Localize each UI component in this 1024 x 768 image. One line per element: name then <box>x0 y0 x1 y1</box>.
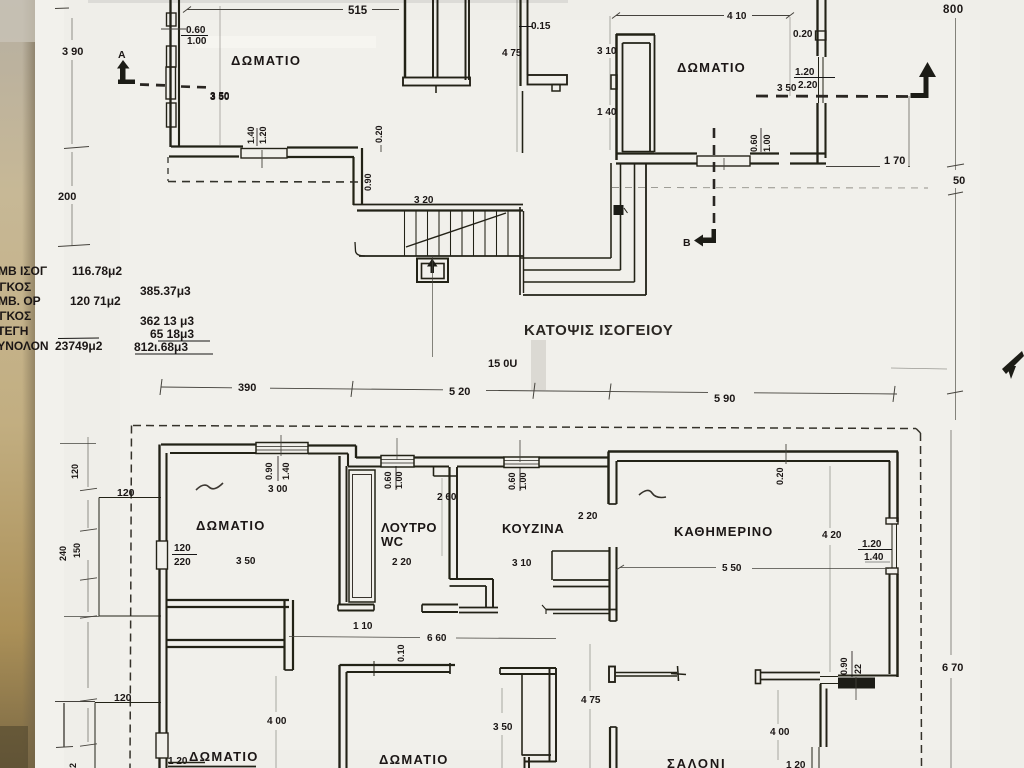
north wall between windows <box>414 456 504 458</box>
bottom edge wall lines lower-left room <box>168 762 205 764</box>
half wall with end cap <box>760 672 820 674</box>
cross mark end of half wall <box>678 666 679 681</box>
svg-text:1 20: 1 20 <box>168 756 188 767</box>
svg-text:200: 200 <box>58 191 76 203</box>
dashed boundary corner <box>916 429 921 434</box>
closet left line <box>521 675 523 756</box>
lower plan north wall left part <box>161 443 256 445</box>
short thick dim segment <box>63 703 65 747</box>
svg-text:120: 120 <box>117 487 135 499</box>
pencil squiggle in room <box>196 483 223 490</box>
svg-text:0.60: 0.60 <box>383 471 393 489</box>
window boxes in left wall <box>167 13 177 26</box>
middle wall bottom rooms <box>338 665 340 768</box>
scan smudge near 15.00 label <box>531 340 546 390</box>
kathimerino north wall <box>608 450 898 452</box>
dashed boundary left <box>130 426 132 768</box>
svg-text:6 70: 6 70 <box>942 662 963 674</box>
saloni east wall <box>819 684 821 747</box>
svg-text:1.00: 1.00 <box>394 471 404 489</box>
svg-text:220: 220 <box>174 557 191 568</box>
svg-text:22: 22 <box>853 664 863 674</box>
lower west wall bottom <box>158 758 160 768</box>
svg-text:ΕΜΒ ΙΣΟΓ: ΕΜΒ ΙΣΟΓ <box>0 264 48 278</box>
svg-text:4 10: 4 10 <box>727 11 747 22</box>
dim extension 4.75 <box>589 644 591 691</box>
svg-text:ΔΩΜΑΤΙΟ: ΔΩΜΑΤΙΟ <box>196 518 266 533</box>
middle wall arm right <box>528 75 568 85</box>
pencil squiggle kathimerino <box>639 490 666 497</box>
svg-text:3 10: 3 10 <box>512 558 532 569</box>
stair top wall <box>353 204 523 206</box>
interior wall vertical B double <box>432 0 434 78</box>
north wall right of kitchen window <box>539 456 608 458</box>
west wall window low <box>156 733 168 758</box>
window north wall <box>256 443 308 454</box>
svg-text:0.10: 0.10 <box>396 644 406 662</box>
svg-text:120 71μ2: 120 71μ2 <box>70 294 121 308</box>
svg-text:ΣΤΕΓΗ: ΣΤΕΓΗ <box>0 324 28 338</box>
svg-text:1 40: 1 40 <box>597 107 617 118</box>
left dim ticks <box>64 147 89 149</box>
svg-text:ΟΓΚΟΣ: ΟΓΚΟΣ <box>0 309 31 323</box>
closet T vertical <box>283 600 285 670</box>
svg-text:ΣΥΝΟΛΟΝ: ΣΥΝΟΛΟΝ <box>0 339 49 353</box>
svg-text:ΚΑΤΟΨΙΣ ΙΣΟΓΕΙΟΥ: ΚΑΤΟΨΙΣ ΙΣΟΓΕΙΟΥ <box>524 322 673 339</box>
svg-text:4 75: 4 75 <box>581 695 601 706</box>
bath south wall segment <box>422 604 458 606</box>
kitchen west wall <box>608 547 610 621</box>
east window sill jogs <box>886 518 898 524</box>
closet wall left vertical double <box>615 34 617 160</box>
strip top light corner <box>0 0 35 42</box>
kathimerino west jamb <box>607 452 609 505</box>
svg-text:WC: WC <box>381 534 404 549</box>
wall top-left exterior vertical <box>169 0 171 147</box>
east window thin lines <box>891 524 893 568</box>
svg-text:3 10: 3 10 <box>597 46 617 57</box>
small tick below bar <box>435 86 437 94</box>
dashed boundary right <box>921 433 922 768</box>
landing arrow up <box>431 266 435 274</box>
east wall lower <box>816 103 818 164</box>
section line A dashes right of wall <box>181 87 210 88</box>
balcony box lower <box>94 703 96 768</box>
svg-text:812ι.68μ3: 812ι.68μ3 <box>134 340 188 354</box>
svg-text:0.60: 0.60 <box>749 134 759 152</box>
dim 1.70 vertical tie <box>908 96 910 167</box>
closet bottom <box>522 754 551 756</box>
interior wall vertical C double <box>465 0 467 80</box>
svg-text:6 60: 6 60 <box>427 633 447 644</box>
left dim ticks lower <box>80 488 97 490</box>
svg-text:1 70: 1 70 <box>884 155 905 167</box>
bathtub <box>349 470 375 602</box>
bath L wall cap <box>459 607 498 609</box>
window kitchen tick <box>519 440 521 462</box>
svg-text:ΔΩΜΑΤΙΟ: ΔΩΜΑΤΙΟ <box>677 60 746 75</box>
dimension tie 0.60 across wall <box>161 28 186 30</box>
svg-text:5 50: 5 50 <box>722 563 742 574</box>
svg-text:2 60: 2 60 <box>437 492 457 503</box>
bottom dim chain line <box>161 386 232 389</box>
right room east wall upper <box>816 0 818 56</box>
stairwell bottom line <box>359 255 523 257</box>
bath east wall double <box>448 467 450 579</box>
svg-text:120: 120 <box>114 692 132 704</box>
svg-text:ΔΩΜΑΤΙΟ: ΔΩΜΑΤΙΟ <box>379 752 449 767</box>
svg-text:0.90: 0.90 <box>839 657 849 675</box>
doorbell black square <box>614 205 624 215</box>
svg-text:2 20: 2 20 <box>392 557 412 568</box>
svg-text:ΔΩΜΑΤΙΟ: ΔΩΜΑΤΙΟ <box>231 53 301 68</box>
dim extension 3.50 <box>501 688 503 713</box>
svg-text:2: 2 <box>68 763 78 768</box>
left dim vertical lower <box>87 437 89 487</box>
svg-text:120: 120 <box>70 464 80 479</box>
kitchen counter bottom lines <box>546 609 616 611</box>
left dim top tie <box>60 443 96 445</box>
balcony tie line <box>64 616 99 618</box>
section arrow A up <box>117 60 130 69</box>
svg-text:1.00: 1.00 <box>518 472 528 490</box>
svg-text:3 90: 3 90 <box>62 46 83 58</box>
bath L wall vertical <box>485 586 487 607</box>
lower west wall mid <box>158 569 160 733</box>
north wall middle section <box>356 456 381 458</box>
stairwell right wall lines <box>519 207 521 295</box>
svg-text:150: 150 <box>72 543 82 558</box>
window bath north <box>381 456 414 468</box>
interior wall bottom bar <box>403 78 470 86</box>
svg-text:1 20: 1 20 <box>786 760 806 768</box>
dim 0.15 with tick <box>519 26 533 28</box>
faint dim line inside bath <box>441 478 443 556</box>
svg-text:1.00: 1.00 <box>187 36 207 47</box>
tick 5.50 left <box>616 565 624 570</box>
stair diagonal cut line <box>406 213 506 247</box>
wall bottom of upper-left room <box>171 145 243 147</box>
entry steps verticals <box>610 163 612 258</box>
closet wall upper double <box>166 599 289 601</box>
wall top of bottom-middle room <box>340 664 456 666</box>
svg-text:116.78μ2: 116.78μ2 <box>72 264 122 278</box>
svg-text:515: 515 <box>348 5 368 17</box>
svg-text:0.60: 0.60 <box>507 472 517 490</box>
window kitchen north <box>504 457 539 468</box>
svg-text:4 00: 4 00 <box>267 716 287 727</box>
dashed boundary top <box>133 426 916 429</box>
svg-text:4 00: 4 00 <box>770 727 790 738</box>
middle wall step <box>552 85 560 92</box>
svg-text:1.20: 1.20 <box>258 126 268 144</box>
dim extension 4.00 <box>275 676 277 712</box>
svg-text:5 90: 5 90 <box>714 393 735 405</box>
svg-text:23749μ2: 23749μ2 <box>55 339 103 353</box>
closet right side <box>649 43 651 152</box>
lower west wall upper <box>158 445 160 542</box>
closet wall lower double <box>166 639 284 641</box>
wall stub bottom edge <box>524 757 526 768</box>
svg-text:1.40: 1.40 <box>246 126 256 144</box>
svg-text:800: 800 <box>943 4 964 16</box>
north wall after window <box>308 444 356 446</box>
balcony box upper <box>98 498 100 617</box>
section line A dashed right side <box>756 95 913 98</box>
half wall saloni with cap <box>609 667 615 683</box>
svg-text:0.60: 0.60 <box>186 25 206 36</box>
svg-text:0.20: 0.20 <box>775 467 785 485</box>
middle wall vertical double <box>519 0 521 86</box>
svg-text:5 20: 5 20 <box>449 386 470 398</box>
bath L wall horizontal <box>450 578 494 580</box>
svg-text:0.90: 0.90 <box>363 173 373 191</box>
kathimerino east wall lower <box>896 574 898 677</box>
svg-text:B: B <box>683 237 691 249</box>
section line A dashes left <box>140 85 168 86</box>
svg-text:0.15: 0.15 <box>531 21 551 32</box>
section line B vertical dashed <box>713 128 716 228</box>
svg-text:0.20: 0.20 <box>793 29 813 40</box>
svg-text:1.00: 1.00 <box>762 134 772 152</box>
svg-text:390: 390 <box>238 382 256 394</box>
bath west wall double <box>338 456 340 604</box>
svg-text:3 50: 3 50 <box>777 83 797 94</box>
dim extension saloni <box>777 690 779 724</box>
bath west wall bottom cap <box>338 604 374 606</box>
dim extension 4.10 right <box>789 17 791 96</box>
svg-text:4 75: 4 75 <box>502 48 522 59</box>
kitchen counter middle double <box>553 579 609 581</box>
closet top arm <box>616 33 655 35</box>
svg-text:362 13 μ3: 362 13 μ3 <box>140 314 194 328</box>
section arrow B left <box>702 238 716 244</box>
svg-text:3 20: 3 20 <box>414 195 434 206</box>
east wall window jog <box>816 31 827 40</box>
svg-text:0.90: 0.90 <box>264 462 274 480</box>
wall bottom continues right <box>287 146 358 148</box>
svg-text:ΕΜΒ. ΟΡ: ΕΜΒ. ΟΡ <box>0 294 41 308</box>
opening thin lines left of black bar <box>820 676 838 678</box>
interior wall vertical A <box>404 0 406 77</box>
svg-text:1.20: 1.20 <box>795 67 815 78</box>
window center tick <box>280 435 282 456</box>
dim line 515 <box>187 9 343 11</box>
dim extension line x610 <box>609 16 611 44</box>
right dim line lower <box>950 430 952 655</box>
svg-text:3 00: 3 00 <box>268 484 288 495</box>
door jamb tick <box>373 661 375 676</box>
jog near bath-kitchen wall <box>433 467 435 477</box>
north arrow <box>1002 351 1024 374</box>
strip bottom dark corner <box>0 726 28 768</box>
wall turn with black bar <box>838 678 875 689</box>
window in south wall <box>697 156 750 166</box>
entry steps horizontals <box>520 257 611 259</box>
white paper margin right of strip <box>35 0 64 768</box>
svg-text:4 20: 4 20 <box>822 530 842 541</box>
svg-text:65 18μ3: 65 18μ3 <box>150 327 194 341</box>
right dim vertical line <box>955 18 957 170</box>
svg-text:1.40: 1.40 <box>281 462 291 480</box>
faint line near north arrow <box>891 368 947 369</box>
dim extension 4.20 line <box>829 466 831 528</box>
tick 515 left end <box>183 7 191 13</box>
svg-text:ΚΟΥΖΙΝΑ: ΚΟΥΖΙΝΑ <box>502 521 564 536</box>
svg-text:ΚΑΘΗΜΕΡΙΝΟ: ΚΑΘΗΜΕΡΙΝΟ <box>674 524 773 539</box>
stair treads <box>404 211 406 256</box>
stairwell left corner notch <box>355 242 365 256</box>
svg-text:1.40: 1.40 <box>864 552 884 563</box>
svg-text:ΛΟΥΤΡΟ: ΛΟΥΤΡΟ <box>381 520 437 535</box>
svg-text:1.20: 1.20 <box>862 539 882 550</box>
dim line 4.10 <box>616 15 724 17</box>
bottom dim ticks <box>160 379 162 395</box>
section arrow A-right <box>911 93 926 98</box>
svg-text:240: 240 <box>58 546 68 561</box>
svg-text:ΔΩΜΑΤΙΟ: ΔΩΜΑΤΙΟ <box>189 749 259 764</box>
svg-text:120: 120 <box>174 543 191 554</box>
south wall continues <box>750 152 779 154</box>
left dim vertical line <box>71 18 73 40</box>
wall corner down to stair area <box>361 148 363 205</box>
dashed overhang line below upper-left room <box>167 157 169 181</box>
kitchen counter foot <box>542 605 546 614</box>
svg-text:385.37μ3: 385.37μ3 <box>140 284 191 298</box>
right dim ticks <box>947 164 964 167</box>
svg-text:3 50: 3 50 <box>210 91 230 102</box>
faint dashed line y188 <box>612 187 928 190</box>
svg-text:A: A <box>118 49 126 61</box>
extension line below landing <box>432 256 434 357</box>
svg-text:ΣΑΛΟΝΙ: ΣΑΛΟΝΙ <box>667 756 726 768</box>
svg-text:ΟΓΚΟΣ: ΟΓΚΟΣ <box>0 280 31 294</box>
closet top bar <box>500 667 556 669</box>
stair landing nested boxes <box>417 259 448 283</box>
kitchen counter top <box>552 550 609 552</box>
saloni east window <box>811 747 813 768</box>
svg-text:15 0U: 15 0U <box>488 358 517 370</box>
svg-text:1 10: 1 10 <box>353 621 373 632</box>
svg-text:0.20: 0.20 <box>374 125 384 143</box>
end cap <box>449 663 451 674</box>
south wall right segment <box>790 152 826 154</box>
svg-text:2.20: 2.20 <box>798 80 818 91</box>
west wall window mid <box>157 541 168 569</box>
saloni west wall lower <box>609 727 611 768</box>
notch on wall left <box>611 75 617 89</box>
closet bottom line <box>622 151 654 153</box>
dim extension 4.75 line <box>516 0 518 152</box>
tie line lower 120 <box>55 701 95 703</box>
svg-text:3 50: 3 50 <box>493 722 513 733</box>
south wall of upper-right room <box>616 152 697 154</box>
overline above 23749 <box>58 337 99 340</box>
window in bottom wall <box>241 149 287 159</box>
bath window tick line <box>396 438 398 460</box>
svg-text:50: 50 <box>953 175 965 187</box>
svg-text:3 50: 3 50 <box>236 556 256 567</box>
middle wall lower single line <box>522 91 524 153</box>
north wall step down <box>355 446 357 459</box>
east wall window thin lines <box>818 57 820 103</box>
svg-text:2 20: 2 20 <box>578 511 598 522</box>
closet right wall double <box>549 668 551 762</box>
kathimerino east wall upper <box>896 452 898 523</box>
